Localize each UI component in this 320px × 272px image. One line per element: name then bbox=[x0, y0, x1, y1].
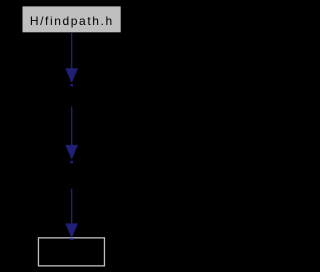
node N1 box H/findpath.h bbox=[23, 6, 121, 32]
edge3 tip dot (overlaps bottom box border) bbox=[70, 238, 74, 240]
wire edge1 line bbox=[71, 32, 72, 69]
edge1 tip dot (node N2 contact) bbox=[70, 84, 73, 86]
wire edge2 line bbox=[71, 107, 72, 146]
arrowhead 1 bbox=[66, 68, 78, 82]
arrowhead 3 bbox=[66, 223, 78, 237]
svg-text:H/findpath.h: H/findpath.h bbox=[30, 14, 114, 28]
node N4 box (bottom) bbox=[38, 238, 104, 266]
wire edge3 line bbox=[71, 189, 72, 225]
edge2 tip dot (node N3 contact) bbox=[70, 161, 73, 163]
arrowhead 2 bbox=[66, 145, 78, 159]
